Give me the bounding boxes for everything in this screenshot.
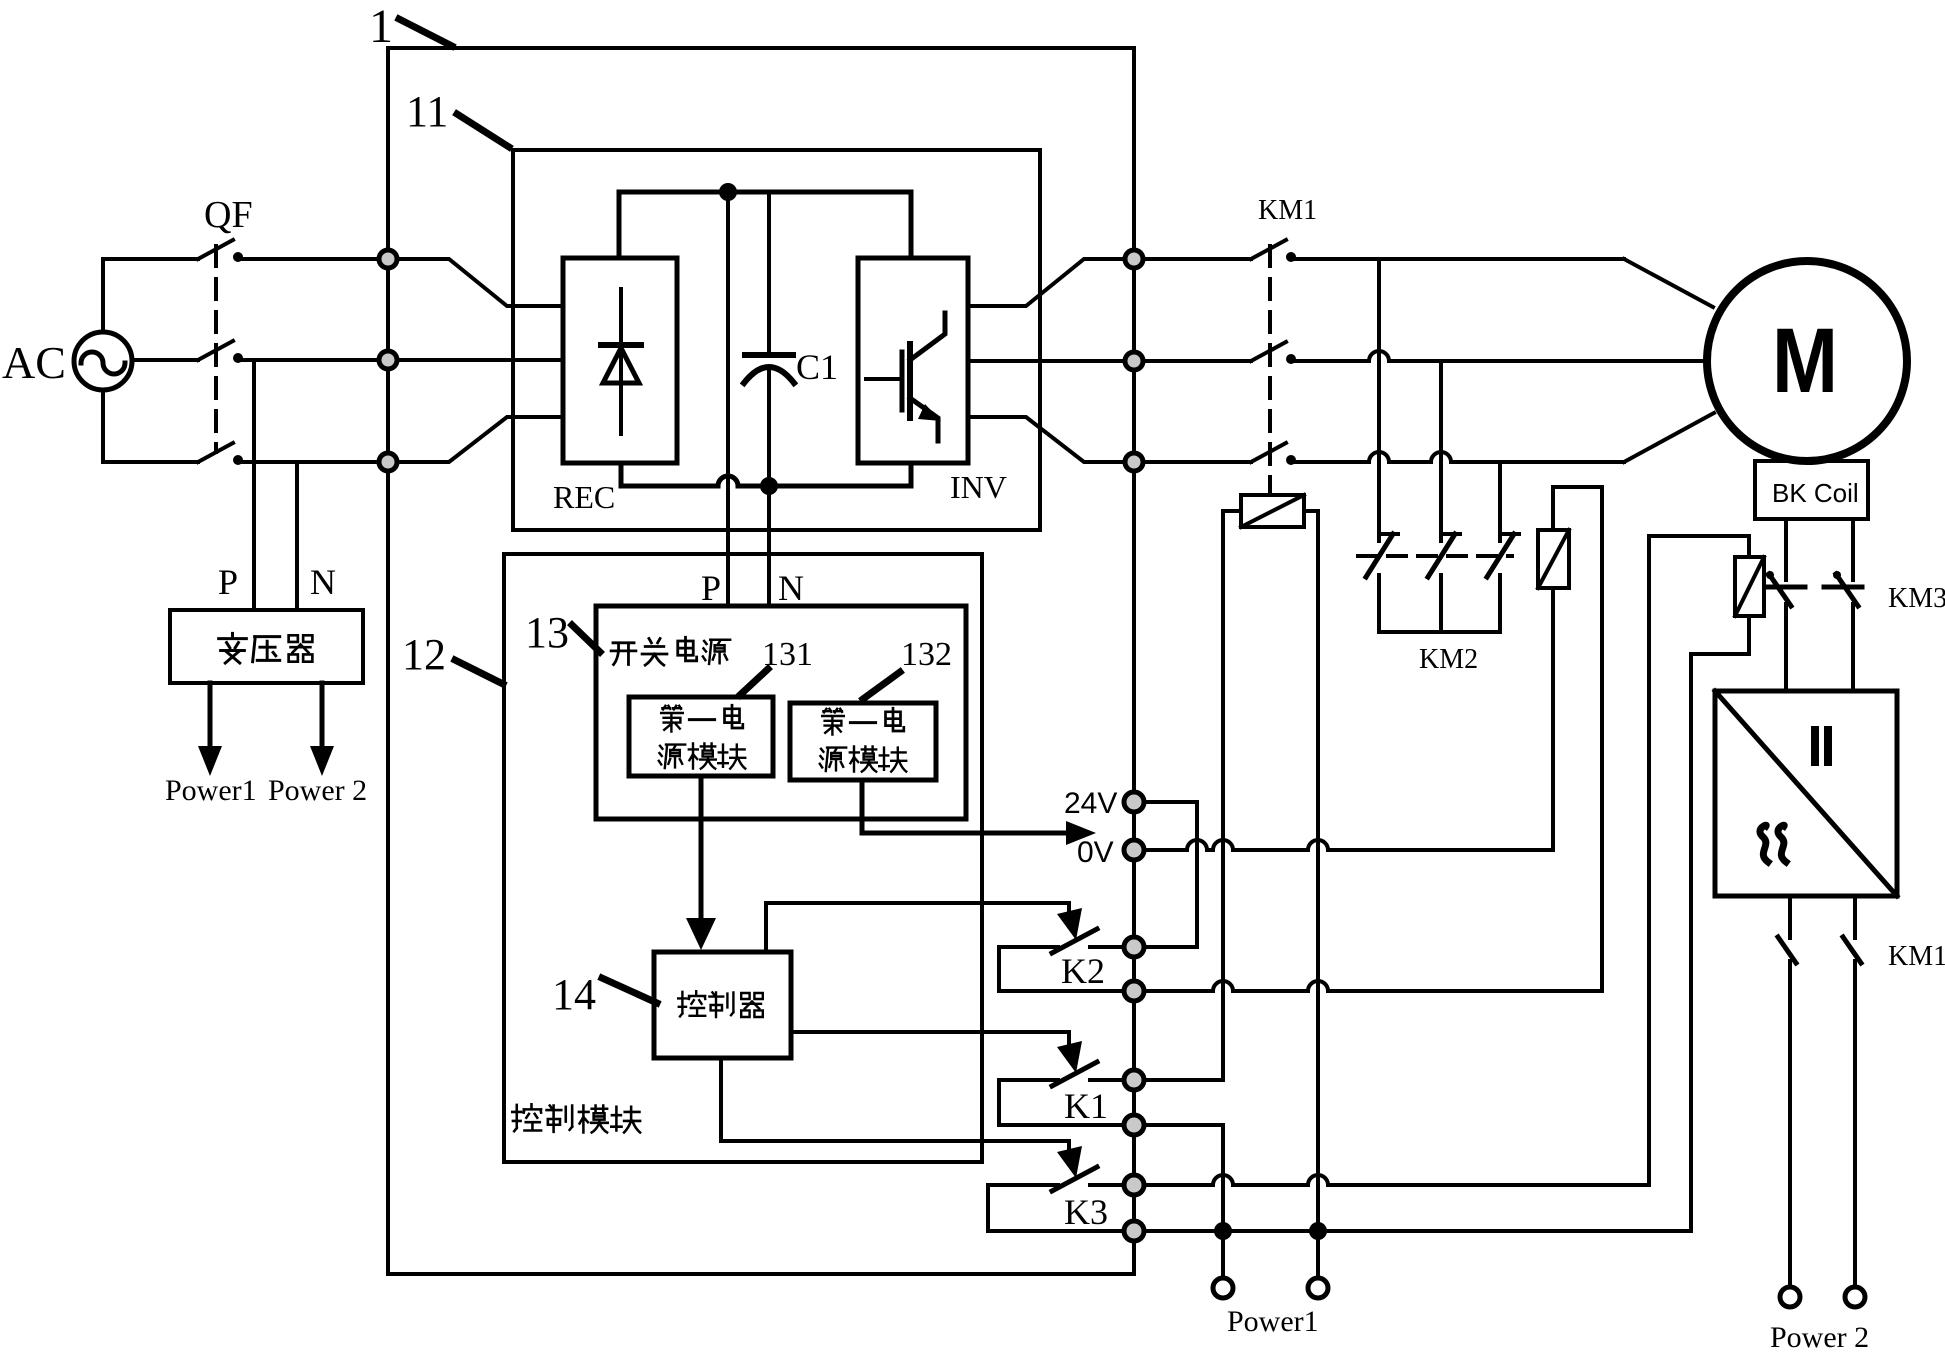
node junction K3bottom/Power1 left (1214, 1222, 1232, 1240)
node K2 top terminal (1124, 937, 1144, 957)
node P junction on top bus (719, 183, 737, 201)
power supply module 131 output arrow to controller (699, 776, 704, 932)
wire KM2 coil top jog to K2 (1553, 487, 1602, 991)
contactor KM1 gang dashed link (1268, 246, 1272, 492)
phase1 wire to KM1 (1143, 257, 1251, 261)
node junction K3bottom/Power1 right (1309, 1222, 1327, 1240)
diode inside REC (619, 289, 623, 434)
contactor KM1 pole 2 (1251, 342, 1286, 361)
phase2 from INV to right bus (968, 359, 1125, 363)
wire 24V jog down to K2 top (1144, 802, 1197, 947)
box 132 (second power module) (790, 703, 936, 780)
REC rectifier box (563, 258, 677, 463)
relay coil KM3 (1735, 557, 1764, 616)
breaker QF pole 3 (198, 443, 233, 462)
wire AC left loop (101, 259, 105, 332)
box 14 controller (654, 952, 791, 1058)
breaker QF pole 2 (198, 341, 233, 360)
motor M (1707, 261, 1907, 461)
wire converter bottom left lead (1788, 896, 1792, 938)
wire (238, 460, 388, 464)
wire N drop from phase3 to transformer (295, 462, 299, 610)
wire BK coil right lead (1851, 519, 1855, 580)
wire KM1 coil right lead down to Power1 (1304, 511, 1318, 1222)
phase 1 wire (top, y=259) (103, 257, 198, 261)
text 开关电源 (box13 title) (611, 643, 636, 665)
svg-text:INV: INV (950, 469, 1007, 505)
text 变压器 (transformer) (219, 633, 247, 663)
wire N vertical into box13 (767, 495, 771, 606)
wire P vertical into box13 (726, 192, 730, 606)
wire KM2 drop 3 from phase3 (1498, 462, 1502, 541)
svg-text:13: 13 (525, 608, 569, 657)
wire KM2 drop 1 from phase1 (1377, 259, 1381, 541)
svg-text:KM1: KM1 (1888, 941, 1945, 972)
wire (238, 257, 388, 261)
svg-text:K3: K3 (1064, 1192, 1108, 1232)
svg-text:1: 1 (369, 0, 393, 53)
switch K2 (766, 903, 1069, 952)
wire KM1 coil left lead down to K1 (1223, 511, 1241, 1080)
text 第一电 (box131 line1) (661, 706, 683, 732)
contact KM2 gang dashed link (1358, 554, 1512, 558)
svg-text:N: N (778, 568, 804, 608)
node K2 bottom terminal (1124, 981, 1144, 1001)
power supply module 132 output arrow to 24V (862, 780, 1066, 833)
box 13 (switching power supply) (596, 606, 966, 819)
wire K1 bottom to Power1 (1144, 1125, 1223, 1222)
wire K3 bottom to KM3 coil bottom (1144, 1229, 1691, 1233)
svg-text:N: N (310, 562, 336, 602)
svg-text:K1: K1 (1064, 1086, 1108, 1126)
node phase3 left terminal (379, 453, 397, 471)
phase2 wire to KM1 (1143, 359, 1251, 363)
wire converter bottom right lead (1853, 896, 1857, 938)
text 控制器 (controller) (678, 991, 705, 1016)
phase3 wire to KM1 (1143, 460, 1251, 464)
wire into REC with jog (397, 259, 563, 306)
wire K2 bottom to KM2 coil with hops (1144, 981, 1602, 991)
svg-text:AC: AC (2, 337, 66, 388)
node K1 top terminal (1124, 1070, 1144, 1090)
contact KM2 pole 1 (NC) (1366, 534, 1393, 577)
node K3 bottom terminal (1124, 1221, 1144, 1241)
switch K1 (791, 1032, 1069, 1051)
svg-text:K2: K2 (1061, 951, 1105, 991)
svg-text:P: P (701, 568, 721, 608)
box 11 (power circuit) (513, 150, 1040, 530)
label 131 leader (740, 669, 768, 695)
AC wave symbol (1760, 825, 1768, 862)
contactor KM1 pole 1 (1251, 240, 1286, 259)
node 0V terminal (1124, 840, 1144, 860)
wire (238, 358, 388, 362)
text 源模块 (box131 line2) (659, 745, 685, 768)
box 131 (first power module) (629, 697, 773, 776)
node phase1 left terminal (379, 250, 397, 268)
label 1 leader (399, 19, 452, 46)
svg-text:BK Coil: BK Coil (1772, 478, 1859, 508)
wire Power1 left lead (1221, 1231, 1225, 1287)
DC bars symbol (1811, 730, 1819, 762)
node Power 2 terminal 1 (1780, 1287, 1800, 1307)
contact KM1 aux pole 2 (1843, 937, 1861, 963)
transformer box (170, 610, 363, 683)
wire 0V line with hops (1144, 840, 1553, 850)
svg-text:0V: 0V (1077, 836, 1114, 869)
label 13 leader (572, 625, 600, 652)
text 第一电 (box132 line1) (822, 709, 844, 735)
svg-text:12: 12 (402, 630, 446, 679)
wire BK coil left lead (1784, 519, 1788, 580)
contact KM3 pole 1 (1766, 585, 1805, 590)
contact KM3 pole 2 (1824, 585, 1862, 590)
wire into REC (397, 358, 563, 362)
label 12 leader (455, 660, 503, 684)
wire K1 top to KM1 coil lead (1144, 1078, 1223, 1082)
box 12 (control module) (504, 554, 982, 1162)
label 132 leader (863, 672, 900, 699)
breaker QF gang dashed link (214, 246, 218, 452)
wire into REC with jog (397, 417, 563, 462)
phase3 from INV to right bus (968, 417, 1125, 462)
AC source (74, 332, 132, 390)
svg-text:Power 2: Power 2 (1770, 1321, 1869, 1354)
wire KM2 drop 2 from phase2 (1439, 361, 1443, 541)
phase3 diagonal to motor (1624, 413, 1714, 462)
wire KM2 coil bottom to 0V (1551, 588, 1555, 850)
svg-text:REC: REC (553, 479, 615, 515)
text 控制模块 (control module) (512, 1104, 541, 1131)
text 源模块 (box132 line2) (820, 748, 846, 771)
phase1 from INV to right bus (968, 259, 1125, 306)
node phase2 left terminal (379, 351, 397, 369)
wire KM3 coil bottom jog (1691, 616, 1749, 1231)
node 24V terminal (1124, 792, 1144, 812)
brake converter box (1715, 691, 1897, 896)
DC top bus (619, 192, 911, 258)
phase 2 wire (mid, y=360) (132, 358, 198, 362)
node Power1 terminal 1 (1213, 1278, 1233, 1298)
svg-text:KM3: KM3 (1888, 583, 1945, 614)
box 1 (drive enclosure) (388, 48, 1134, 1274)
label 11 leader (457, 114, 509, 147)
node K3 top terminal (1124, 1175, 1144, 1195)
IGBT inside INV (866, 377, 901, 381)
wire K3 top to KM3 coil with hops (1144, 1175, 1649, 1185)
transformer output arrow Power1 (208, 683, 213, 752)
breaker QF pole 1 (198, 240, 233, 259)
svg-text:14: 14 (552, 970, 596, 1019)
contact KM2 pole 3 (NC) (1487, 534, 1514, 577)
svg-text:M: M (1772, 310, 1838, 412)
relay coil KM1 (1241, 495, 1304, 527)
phase2 wire with hop at 1379 (1291, 351, 1706, 361)
svg-text:P: P (218, 562, 238, 602)
node N junction on bottom bus (760, 477, 778, 495)
svg-text:11: 11 (406, 87, 448, 136)
svg-text:24V: 24V (1064, 787, 1117, 820)
contactor KM1 pole 3 (1251, 443, 1286, 462)
wire P drop from phase2 to transformer (252, 360, 256, 610)
BK Coil box (1755, 461, 1868, 519)
svg-text:Power 2: Power 2 (268, 774, 367, 807)
contact KM2 pole 2 (NC) (1428, 534, 1455, 577)
svg-text:KM2: KM2 (1419, 644, 1478, 675)
node K1 bottom terminal (1124, 1115, 1144, 1135)
contact KM1 aux pole 1 (1778, 937, 1796, 963)
label 14 leader (602, 978, 657, 1003)
switch K3 (721, 1058, 1069, 1156)
svg-text:131: 131 (762, 636, 813, 673)
transformer output arrow Power 2 (320, 683, 325, 752)
svg-text:132: 132 (901, 636, 952, 673)
relay coil KM2 (1538, 530, 1569, 588)
wire KM3 coil top jog (1649, 536, 1749, 1185)
phase3 wire with hops at 1379,1441 (1291, 452, 1624, 462)
node Power1 terminal 2 (1308, 1278, 1328, 1298)
svg-text:KM1: KM1 (1258, 195, 1317, 226)
node Power 2 terminal 2 (1845, 1287, 1865, 1307)
INV inverter box (858, 258, 968, 463)
svg-text:Power1: Power1 (1227, 1305, 1319, 1338)
phase 3 wire (bottom, y=462) (103, 460, 198, 464)
wire KM2 bottom bus (1379, 630, 1500, 634)
capacitor C1 (767, 192, 771, 355)
wire Power1 right lead (1316, 1231, 1320, 1287)
DC bottom bus with hop over P wire (621, 463, 911, 486)
svg-text:Power1: Power1 (165, 774, 257, 807)
svg-text:QF: QF (204, 194, 253, 236)
svg-text:C1: C1 (796, 347, 838, 387)
phase1 diagonal to motor (1624, 259, 1713, 307)
